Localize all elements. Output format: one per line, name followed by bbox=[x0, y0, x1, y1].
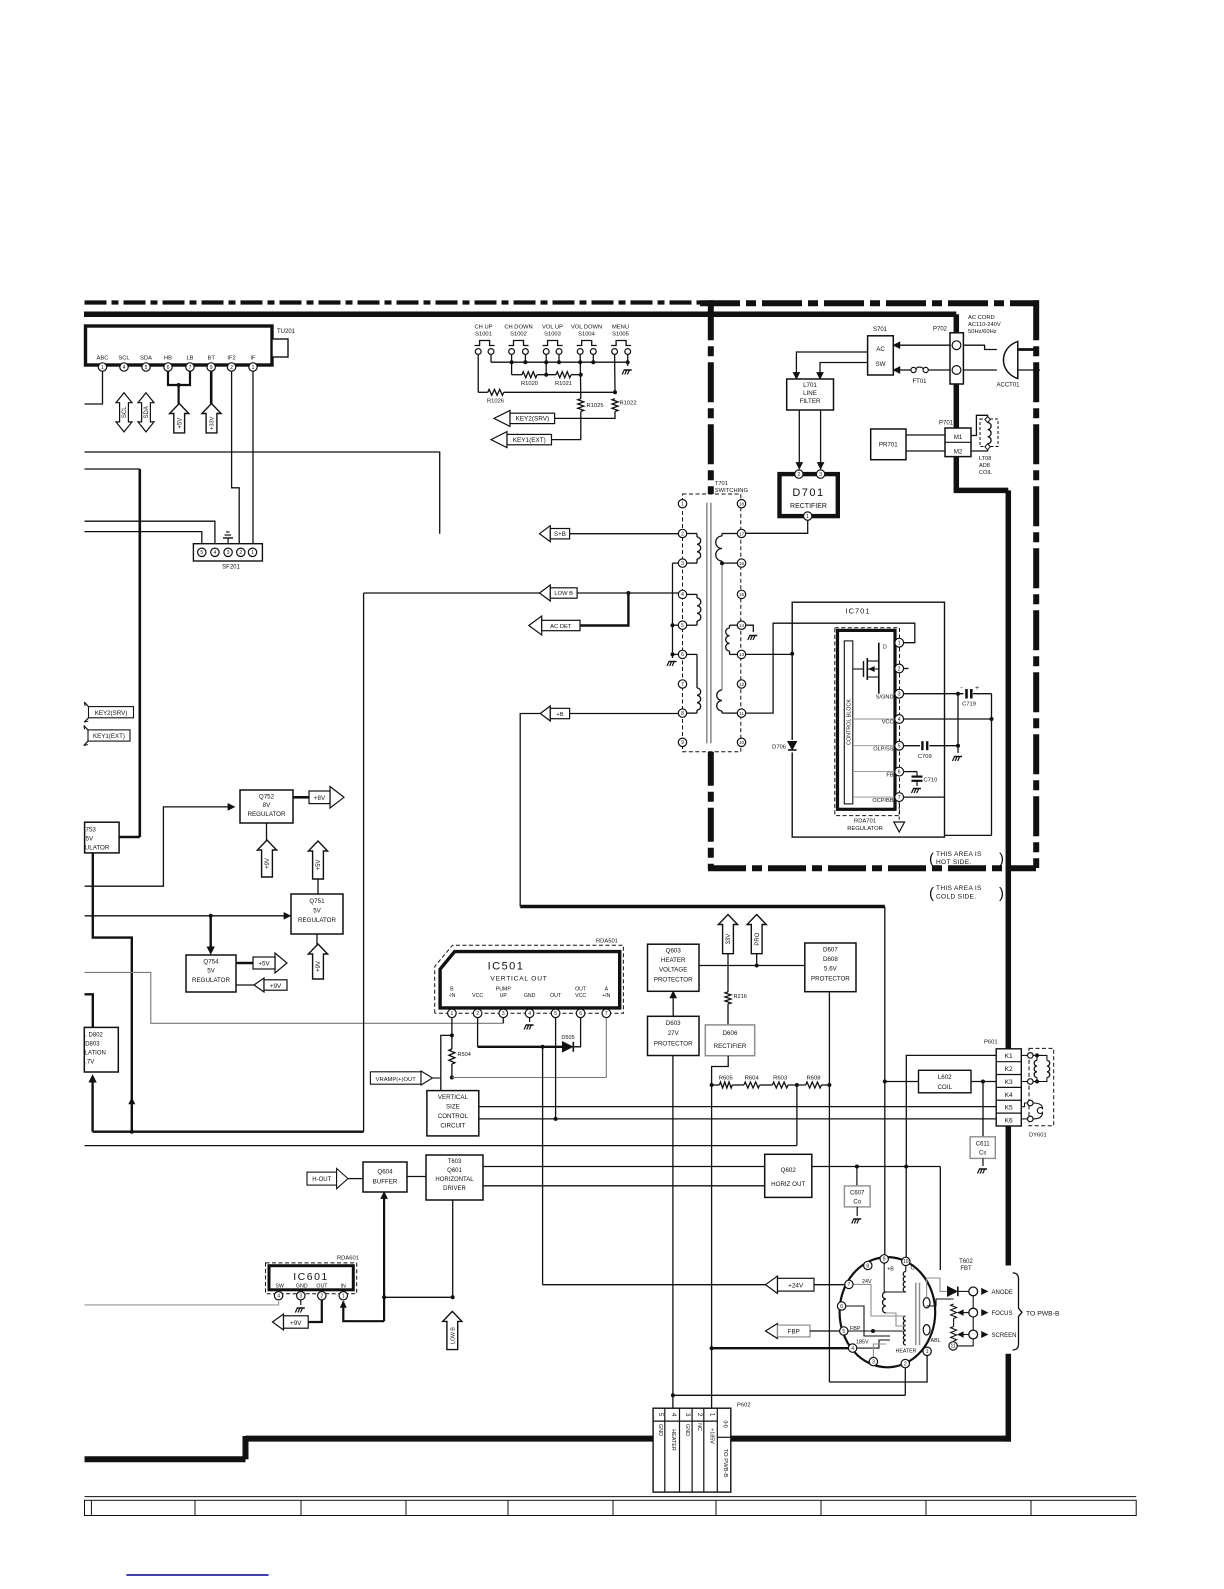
svg-text:11: 11 bbox=[950, 1344, 955, 1350]
Q602 collector wire bbox=[812, 1166, 941, 1168]
switch S1005 symbol bbox=[611, 341, 631, 346]
bus junction bbox=[523, 360, 527, 364]
svg-text:LINE: LINE bbox=[803, 390, 817, 397]
svg-text:HORIZ OUT: HORIZ OUT bbox=[771, 1181, 805, 1188]
wire IF to SF201 pin1 bbox=[252, 371, 254, 548]
svg-text:7: 7 bbox=[898, 795, 901, 801]
gray wire vramp node to pin7 bbox=[452, 1077, 606, 1079]
regulator Q752 box bbox=[240, 790, 293, 823]
svg-text:D608: D608 bbox=[823, 956, 838, 963]
horizontal yoke coils bbox=[1033, 1054, 1037, 1056]
svg-text:): ) bbox=[999, 885, 1004, 902]
wire Q751 to +9V arrow bbox=[316, 934, 318, 945]
IC701 pin2 stub bbox=[904, 668, 909, 670]
solid border elbow bbox=[954, 488, 1009, 494]
revision table bbox=[85, 1500, 1137, 1515]
junction at R1022 top bbox=[613, 390, 617, 394]
svg-text:SWITCHING: SWITCHING bbox=[715, 488, 749, 494]
wire input to Q751 bbox=[85, 915, 285, 917]
gray wire to IC601 pin4 bbox=[85, 1300, 279, 1305]
thick wire Q753 bottom path bbox=[93, 853, 132, 1132]
svg-text:17: 17 bbox=[739, 531, 745, 536]
wire pin7 OCP/BB bbox=[904, 796, 945, 798]
wire Q752 to +9V arrow bbox=[266, 823, 268, 841]
svg-text:4: 4 bbox=[123, 365, 126, 371]
thick wire to Q754 bbox=[209, 916, 211, 947]
connector P701 M1 M2 bbox=[945, 428, 971, 457]
K1 to yoke bbox=[1021, 1054, 1027, 1056]
svg-text:1: 1 bbox=[251, 550, 254, 556]
svg-text:K1: K1 bbox=[1005, 1053, 1013, 1060]
svg-text:AC DET: AC DET bbox=[550, 624, 572, 630]
T602 pin 8 bbox=[864, 1261, 872, 1269]
wire y469 to thick vertical bbox=[85, 468, 140, 470]
svg-text:AC CORD: AC CORD bbox=[968, 315, 995, 321]
svg-text:7: 7 bbox=[189, 365, 192, 371]
svg-text:5V: 5V bbox=[313, 908, 321, 915]
regulator Q754 box bbox=[186, 955, 236, 992]
svg-text:1: 1 bbox=[451, 1011, 454, 1017]
svg-text:HOT SIDE.: HOT SIDE. bbox=[936, 859, 972, 866]
svg-text:C719: C719 bbox=[962, 702, 976, 708]
ground C611 bbox=[982, 1158, 984, 1166]
svg-text:(: ( bbox=[929, 885, 934, 902]
svg-text:T701: T701 bbox=[715, 481, 728, 487]
KEY2(SRV) off-page flag bbox=[89, 707, 134, 718]
wire pin4 VCC bbox=[904, 718, 992, 720]
svg-text:ULATOR: ULATOR bbox=[85, 845, 110, 852]
RDA701 dashed box bbox=[835, 628, 900, 816]
svg-text:4: 4 bbox=[898, 717, 901, 723]
svg-text:): ) bbox=[999, 851, 1004, 868]
bus junction bbox=[626, 360, 630, 364]
svg-text:2: 2 bbox=[898, 666, 901, 672]
T701 primary tie vertical bbox=[672, 563, 674, 658]
long wire y452 from left edge bbox=[85, 452, 440, 534]
wire C709 to gnd node bbox=[929, 745, 958, 747]
FBP flag bbox=[766, 1324, 778, 1339]
svg-text:R1021: R1021 bbox=[555, 381, 572, 387]
ground IC701 node bbox=[953, 757, 955, 762]
fuse FT01 bbox=[929, 369, 950, 371]
svg-text:4: 4 bbox=[670, 1413, 677, 1417]
svg-text:FILTER: FILTER bbox=[800, 398, 821, 405]
wire P702-1 to S701 bbox=[898, 344, 951, 346]
wire C719 plus side bbox=[973, 693, 992, 695]
wire L701 to D701 pin3 bbox=[820, 410, 822, 465]
svg-text:AC110-240V: AC110-240V bbox=[968, 322, 1001, 328]
T701 winding 4-5 bbox=[687, 593, 697, 595]
KEY1(EXT) off-page flag bbox=[88, 730, 130, 741]
screen pot bbox=[951, 1327, 957, 1342]
svg-text:COIL: COIL bbox=[979, 470, 992, 476]
buffer Q604 box bbox=[363, 1162, 407, 1192]
wire L701 to D701 pin2 bbox=[798, 410, 800, 465]
wire to +5V arrow bbox=[178, 385, 180, 404]
svg-text:H-OUT: H-OUT bbox=[312, 1177, 331, 1183]
wire row y392.3 with R1026 bbox=[478, 391, 488, 393]
svg-text:VCC: VCC bbox=[472, 993, 483, 999]
svg-text:9: 9 bbox=[210, 365, 213, 371]
svg-text:11: 11 bbox=[739, 711, 744, 716]
svg-text:VOLTAGE: VOLTAGE bbox=[659, 967, 687, 974]
long wire y1145.6 to left edge bbox=[85, 1145, 797, 1147]
wire M2 to LT08 bbox=[971, 449, 988, 451]
T602 pin 2 bbox=[901, 1359, 909, 1367]
svg-text:REGULATOR: REGULATOR bbox=[248, 811, 286, 818]
FBT pin2 wire down bbox=[904, 1368, 906, 1396]
wire S+B to T701 pin2 bbox=[570, 533, 679, 535]
T701 winding 14-13 bbox=[730, 624, 738, 626]
svg-text:M2: M2 bbox=[954, 449, 963, 456]
T602 pin 1 bbox=[923, 1347, 931, 1355]
control block bbox=[844, 641, 853, 804]
wire LOW B line to T701 pin4 bbox=[364, 592, 679, 594]
IC501 pin 6 bbox=[576, 1009, 585, 1018]
svg-text:THIS AREA IS: THIS AREA IS bbox=[936, 851, 982, 858]
svg-text:14: 14 bbox=[739, 623, 745, 628]
svg-text:Q752: Q752 bbox=[259, 794, 275, 801]
+9V input arrow to Q754 bbox=[236, 984, 256, 986]
svg-text:2: 2 bbox=[904, 1361, 907, 1367]
K6 to yoke bbox=[1021, 1118, 1027, 1120]
wire T701 pin5 tie bbox=[673, 624, 679, 626]
svg-text:B: B bbox=[450, 987, 454, 993]
svg-text:PRO: PRO bbox=[755, 932, 761, 945]
ground above SF201 pin3 bbox=[227, 538, 229, 548]
hot-side dash-dot left border (lower) bbox=[708, 752, 714, 869]
svg-text:185V: 185V bbox=[856, 1340, 869, 1346]
hot-side dash-dot top border bbox=[700, 300, 1039, 306]
wire to +24V flag bbox=[543, 1284, 766, 1286]
svg-text:R608: R608 bbox=[806, 1076, 821, 1082]
wire to FBT top bbox=[939, 1167, 941, 1271]
svg-text:3: 3 bbox=[684, 1413, 691, 1417]
IC601 pin 3 bbox=[297, 1292, 305, 1300]
svg-text:1: 1 bbox=[709, 1413, 716, 1417]
K3 to yoke bbox=[1021, 1081, 1027, 1083]
vertical size control circuit box bbox=[427, 1091, 479, 1136]
svg-text:1: 1 bbox=[342, 1294, 345, 1300]
flyback transformer T602 outline bbox=[840, 1257, 936, 1367]
svg-text:5: 5 bbox=[200, 550, 203, 556]
heater wire to FBT pin2 bbox=[673, 1394, 905, 1396]
svg-text:7: 7 bbox=[681, 682, 684, 688]
svg-text:SDA: SDA bbox=[140, 356, 152, 362]
svg-text:12: 12 bbox=[739, 682, 745, 687]
bottom border right segment a bbox=[246, 1436, 654, 1442]
wire input to Q752 bbox=[85, 807, 228, 886]
+5V supply arrow bbox=[170, 404, 189, 433]
svg-text:D607: D607 bbox=[823, 947, 838, 954]
svg-text:PUMP: PUMP bbox=[496, 987, 512, 993]
PRO stem bbox=[756, 954, 758, 966]
bus junction bbox=[510, 360, 514, 364]
svg-text:PROTECTOR: PROTECTOR bbox=[654, 977, 693, 984]
svg-text:Q751: Q751 bbox=[309, 898, 325, 905]
protector D603 box bbox=[648, 1016, 700, 1055]
svg-text:NC: NC bbox=[696, 1423, 702, 1431]
svg-text:7: 7 bbox=[605, 1011, 608, 1017]
svg-text:TU201: TU201 bbox=[277, 329, 296, 335]
IC501 pin 2 bbox=[473, 1009, 482, 1018]
T701 pin 18 bbox=[737, 500, 745, 508]
gnd node vertical bbox=[957, 694, 959, 753]
svg-text:R604: R604 bbox=[745, 1076, 760, 1082]
protector D607 D608 box bbox=[805, 943, 856, 992]
T701 pin 6 bbox=[678, 650, 686, 658]
switch common bus wire bbox=[491, 361, 628, 363]
svg-text:K6: K6 bbox=[1005, 1118, 1013, 1125]
LOW B flag bbox=[540, 585, 551, 601]
svg-text:SCL: SCL bbox=[122, 406, 128, 418]
bottom border step bbox=[243, 1436, 249, 1459]
wire L602 to K3 bbox=[971, 1081, 996, 1083]
wire to C611 bbox=[982, 1082, 984, 1137]
svg-text:HEATER: HEATER bbox=[670, 1429, 676, 1451]
svg-text:D701: D701 bbox=[792, 487, 824, 499]
svg-text:9: 9 bbox=[681, 740, 684, 746]
connector SF201 box bbox=[193, 544, 262, 561]
resistor R504 bbox=[449, 1049, 455, 1064]
tie junctions bbox=[671, 623, 675, 627]
capacitor C710 bbox=[916, 772, 918, 777]
svg-text:16: 16 bbox=[739, 561, 745, 566]
thick wire pin2 to D505 bbox=[478, 1046, 563, 1048]
T701 pin 1 bbox=[678, 500, 686, 508]
svg-text:FT01: FT01 bbox=[912, 379, 927, 385]
svg-text:IF2: IF2 bbox=[227, 356, 235, 362]
FBT heater winding bbox=[903, 1316, 905, 1345]
svg-text:T602: T602 bbox=[959, 1259, 973, 1265]
svg-text:OUT: OUT bbox=[550, 993, 562, 999]
33V stem through node to R216 bbox=[727, 954, 729, 992]
wire +5V arrow to Q751 bbox=[317, 879, 319, 894]
wire D607 down to chain bbox=[828, 992, 830, 1085]
bus junction bbox=[544, 360, 548, 364]
junction PRO bbox=[755, 964, 759, 968]
svg-text:OCP/BB: OCP/BB bbox=[872, 798, 893, 804]
T701 pin 2 bbox=[678, 529, 686, 537]
svg-text:RDA601: RDA601 bbox=[337, 1256, 359, 1262]
diode to anode bbox=[948, 1287, 958, 1297]
svg-text:LATION: LATION bbox=[85, 1051, 106, 1057]
svg-text:VOL UP: VOL UP bbox=[542, 325, 563, 331]
wire HB LB join bbox=[168, 371, 190, 385]
bottom border right segment b bbox=[731, 1436, 1011, 1442]
resistor R1025 bbox=[578, 399, 584, 412]
svg-text:VERTICAL OUT: VERTICAL OUT bbox=[490, 976, 547, 983]
svg-text:PROTECTOR: PROTECTOR bbox=[811, 976, 850, 983]
svg-text:R216: R216 bbox=[734, 994, 747, 1000]
T701 pin 13 bbox=[737, 650, 745, 658]
svg-text:OUT: OUT bbox=[316, 1284, 328, 1290]
svg-text:4: 4 bbox=[528, 1011, 531, 1017]
wire FT01 to S701 bbox=[898, 369, 911, 371]
svg-text:1: 1 bbox=[252, 365, 255, 371]
resistor R1021 bbox=[556, 372, 571, 378]
svg-text:CH UP: CH UP bbox=[474, 325, 492, 331]
LT08 coil bbox=[988, 423, 992, 444]
wire D603 down to P602 pin4 bbox=[672, 1056, 674, 1409]
wire pin2 VCC down bbox=[477, 1018, 479, 1047]
svg-text:R1025: R1025 bbox=[587, 403, 604, 409]
junction 24V feed bbox=[541, 1045, 545, 1049]
wire T701 pin14 to ground bbox=[746, 625, 754, 632]
+9V flag IC601 bbox=[273, 1314, 284, 1330]
svg-text:+24V: +24V bbox=[788, 1282, 804, 1289]
wire IC601 pin2 to +9V bbox=[308, 1300, 322, 1322]
switch S1003 symbol bbox=[543, 341, 563, 346]
LOW B up arrow bbox=[443, 1311, 462, 1349]
FBT primary winding top bbox=[903, 1272, 906, 1293]
svg-text:+33V: +33V bbox=[210, 416, 216, 429]
svg-text:5V: 5V bbox=[86, 836, 94, 843]
svg-text:MENU: MENU bbox=[612, 325, 629, 331]
D701 pin1 bbox=[804, 512, 812, 520]
+B vertical to FBT pin9 bbox=[884, 907, 886, 1255]
svg-text:5: 5 bbox=[681, 623, 684, 629]
svg-text:D706: D706 bbox=[772, 745, 786, 751]
heavy +B rail label wires done above; Q603 box bbox=[648, 944, 700, 991]
bus junction bbox=[591, 360, 595, 364]
T701 core lines bbox=[706, 503, 708, 744]
wire to T603 junction bbox=[384, 1296, 453, 1298]
thick rail to D802 with arrow bbox=[91, 1079, 93, 1132]
wire D606 to chain bbox=[712, 1056, 729, 1085]
K1 wire from Q602 node bbox=[906, 1055, 996, 1166]
svg-text:S1002: S1002 bbox=[510, 332, 527, 338]
wire Q604 to T603 bbox=[407, 1176, 426, 1178]
+9V arrow into Q751 bbox=[308, 944, 327, 979]
svg-text:+B: +B bbox=[556, 712, 563, 718]
plug prong thick bbox=[1018, 348, 1035, 351]
AC plug ACCT01 bbox=[1003, 342, 1017, 379]
svg-text:HORIZONTAL: HORIZONTAL bbox=[435, 1177, 474, 1183]
svg-text:ABC: ABC bbox=[97, 356, 109, 362]
TU201 pin 4 bbox=[120, 363, 128, 371]
svg-text:+9V: +9V bbox=[290, 1320, 302, 1327]
svg-text:-IN: -IN bbox=[448, 993, 455, 999]
T701 dashed box bbox=[683, 494, 741, 752]
FBT internal wires bbox=[883, 1263, 885, 1292]
svg-text:KEY1(EXT): KEY1(EXT) bbox=[513, 437, 546, 444]
svg-text:C607: C607 bbox=[850, 1191, 865, 1197]
svg-text:3: 3 bbox=[898, 692, 901, 698]
svg-text:K4: K4 bbox=[1005, 1092, 1013, 1099]
horizontal driver T603 box bbox=[426, 1155, 483, 1200]
thick vertical wire x140 bbox=[139, 469, 142, 837]
wire BT to +33V bbox=[210, 371, 213, 404]
svg-text:GND: GND bbox=[524, 993, 536, 999]
svg-text:. D802: . D802 bbox=[85, 1033, 103, 1039]
svg-text:BUFFER: BUFFER bbox=[373, 1179, 398, 1186]
TU201 pin 9 bbox=[207, 363, 215, 371]
T701 pin 3 bbox=[678, 559, 686, 567]
svg-text:Q601: Q601 bbox=[447, 1168, 462, 1174]
VRAMP(+)OUT flag bbox=[370, 1072, 421, 1084]
svg-text:S/GND: S/GND bbox=[876, 695, 894, 701]
svg-text:CONTROL: CONTROL bbox=[438, 1113, 469, 1120]
svg-text:3: 3 bbox=[819, 472, 822, 478]
T701 pin 10 bbox=[737, 738, 745, 746]
svg-text:K2: K2 bbox=[1005, 1066, 1013, 1073]
svg-text:IC701: IC701 bbox=[845, 607, 870, 616]
svg-text:S701: S701 bbox=[873, 327, 888, 333]
svg-text:VCC: VCC bbox=[882, 720, 894, 726]
185V thick wire to FBT pin4 bbox=[712, 1347, 848, 1349]
resistor R1026 bbox=[488, 389, 504, 395]
svg-text:BT: BT bbox=[207, 356, 215, 362]
wire row y374.7 with R1020 R1021 bbox=[512, 374, 522, 376]
svg-text:Q754: Q754 bbox=[203, 959, 219, 966]
svg-text:18: 18 bbox=[739, 502, 745, 507]
junction to Q754 bbox=[209, 914, 213, 918]
svg-text:Cs: Cs bbox=[979, 1151, 986, 1157]
svg-text:753: 753 bbox=[86, 827, 97, 834]
resistor chain R605 R604 R603 R608 bbox=[710, 1083, 714, 1087]
svg-text:RDA701: RDA701 bbox=[854, 819, 876, 825]
svg-text:RDA501: RDA501 bbox=[596, 939, 618, 945]
wire FBP to FBT pin5 bbox=[810, 1330, 840, 1332]
D701 pin2 bbox=[795, 470, 803, 478]
svg-text:FB: FB bbox=[886, 773, 893, 779]
junction LOW B / AC DET bbox=[626, 591, 630, 595]
T701 pin 8 bbox=[678, 709, 686, 717]
horiz out Q602 box bbox=[765, 1154, 812, 1197]
svg-text:2: 2 bbox=[320, 1294, 323, 1300]
T701 pin 17 bbox=[737, 529, 745, 537]
arrow D603 to Q603 bbox=[672, 997, 674, 1016]
svg-text:IF: IF bbox=[250, 356, 256, 362]
wire H-OUT to Q604 bbox=[348, 1178, 363, 1180]
capacitor C607 box bbox=[856, 1167, 858, 1186]
vcc node vertical bbox=[991, 694, 993, 836]
svg-text:THIS AREA IS: THIS AREA IS bbox=[936, 885, 982, 892]
+8V output arrow bbox=[293, 796, 309, 799]
capacitor C719 polarized bbox=[965, 689, 968, 699]
LT08 terminals bbox=[985, 417, 990, 423]
svg-text:S+B: S+B bbox=[554, 531, 566, 538]
wire IF2 to SF201 pin2 bbox=[232, 371, 240, 548]
svg-text:1: 1 bbox=[101, 365, 104, 371]
svg-text:+5V: +5V bbox=[316, 860, 322, 871]
svg-text:3: 3 bbox=[681, 561, 684, 567]
svg-text:R605: R605 bbox=[719, 1076, 734, 1082]
LOW B feed vertical to Q604 bbox=[383, 1197, 385, 1321]
svg-text:2: 2 bbox=[476, 1011, 479, 1017]
junction vcc bbox=[990, 717, 994, 721]
junction 185V bbox=[710, 1346, 714, 1350]
ground T701 primary bbox=[667, 662, 669, 667]
connector P702 bbox=[950, 333, 963, 384]
wire M1 to LT08 bbox=[971, 415, 988, 435]
AC DET flag bbox=[529, 616, 542, 635]
svg-text:OUT: OUT bbox=[575, 987, 587, 993]
T701 pin 9 bbox=[678, 738, 686, 746]
T701 winding 6-8 bbox=[687, 653, 697, 655]
svg-text:+5V: +5V bbox=[177, 418, 183, 429]
junction R1020 row bbox=[544, 373, 548, 377]
screen terminal bbox=[969, 1330, 978, 1339]
anode terminal bbox=[958, 1290, 969, 1292]
thick rail y1131.7 bbox=[93, 1130, 364, 1132]
svg-text:(H): (H) bbox=[722, 1420, 728, 1428]
ground IC601 pin3 bbox=[300, 1300, 302, 1305]
svg-text:P602: P602 bbox=[737, 1403, 751, 1409]
IC701 pin 4 bbox=[895, 715, 904, 724]
bus stubs from right terminals bbox=[490, 354, 492, 362]
